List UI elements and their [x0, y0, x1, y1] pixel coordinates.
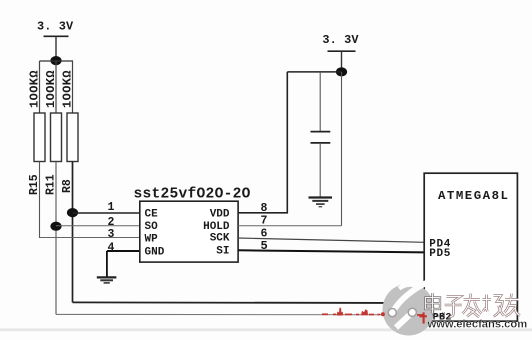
wire 3.3V down to junction	[341, 51, 343, 72]
ground symbol for flash GND	[97, 251, 117, 283]
wire pin8 VDD	[238, 212, 288, 214]
wire junction left to VDD branch	[287, 71, 341, 73]
resistor R11 value 100K	[44, 70, 58, 108]
watermark char fa	[463, 294, 482, 318]
resistor R11 label	[45, 174, 58, 195]
wire R8 top lead	[72, 61, 74, 113]
svg-text:SI: SI	[216, 246, 229, 258]
pin number 8	[261, 202, 268, 215]
pin name SI	[216, 246, 229, 258]
wire R8 bottom lead down	[72, 162, 74, 303]
svg-text:ATMEGA8L: ATMEGA8L	[438, 189, 510, 203]
wire pin2 SO	[56, 225, 140, 227]
IC U1 flash sst25vf020 body	[140, 201, 238, 262]
red annotation tick at ATMEGA	[419, 312, 426, 323]
resistor R15 value 100K	[28, 70, 42, 108]
red annotation dashed underline	[322, 313, 424, 316]
pin name SO	[145, 221, 159, 233]
svg-text:CE: CE	[145, 209, 159, 221]
capacitor C1 plates	[311, 132, 331, 143]
power bar symbol left	[44, 35, 69, 37]
node junction dot top-left	[50, 56, 61, 65]
watermark char zi	[445, 297, 463, 317]
svg-text:GND: GND	[145, 247, 165, 259]
svg-text:3. 3V: 3. 3V	[322, 33, 359, 47]
wire R15 top lead	[39, 61, 41, 113]
watermark char you	[505, 294, 521, 317]
node junction dot right	[336, 67, 347, 76]
wire pin4 GND	[107, 250, 140, 252]
IC U1 title sst25vf020-20	[134, 187, 251, 203]
resistor R8 value 100K	[61, 70, 75, 108]
IC U2 ATMEGA8L body	[424, 173, 517, 321]
wire R11 bottom lead down	[55, 162, 57, 315]
pin name HOLD	[203, 221, 230, 233]
pin number 7	[261, 215, 268, 228]
pin name WP	[145, 234, 159, 246]
resistor R11 body	[51, 113, 62, 162]
pin number 3	[108, 228, 115, 241]
svg-text:1: 1	[108, 201, 115, 214]
resistor R15 label	[28, 174, 41, 195]
svg-text:sst25vfO2O-2O: sst25vfO2O-2O	[134, 187, 251, 203]
red annotation dot	[381, 312, 385, 316]
resistor R8 label	[61, 179, 74, 193]
pin number 4	[108, 241, 115, 254]
wire CE bottom loop	[73, 301, 425, 304]
wire pin5 SI to PD5	[238, 250, 424, 252]
node CE junction dot	[67, 208, 78, 217]
pin number 5	[261, 239, 268, 253]
pin name PD5	[429, 248, 451, 260]
wire VDD vertical drop	[286, 72, 288, 213]
resistor R8 body	[67, 113, 78, 162]
pin number 1	[108, 201, 115, 214]
wire 3.3V to junction	[55, 36, 57, 61]
wire pin7 HOLD	[238, 225, 341, 227]
watermark char dian	[426, 293, 444, 316]
capacitor C1 top lead	[319, 72, 321, 131]
power bar symbol right	[328, 50, 356, 52]
wire HOLD tie-high vertical	[341, 72, 343, 226]
node SO junction dot	[50, 222, 61, 231]
wire rail across resistor tops	[40, 60, 74, 62]
pin name PB2	[433, 313, 452, 324]
wire pin3 WP	[40, 237, 140, 239]
svg-text:3. 3V: 3. 3V	[37, 19, 74, 33]
svg-text:WP: WP	[145, 234, 159, 246]
svg-text:HOLD: HOLD	[203, 221, 230, 233]
red annotation mark 1	[337, 308, 344, 316]
svg-text:3: 3	[108, 228, 115, 241]
watermark logo circle	[383, 283, 435, 336]
faint scan band	[0, 328, 532, 331]
watermark url text	[427, 318, 528, 330]
pin name PD4	[429, 239, 451, 251]
svg-text:VDD: VDD	[210, 209, 230, 221]
resistor R15 body	[34, 113, 45, 162]
svg-text:www.elecfans.com: www.elecfans.com	[427, 318, 528, 330]
wire R15 bottom lead to WP	[39, 162, 41, 239]
pin number 6	[261, 228, 268, 241]
svg-text:4: 4	[108, 241, 115, 254]
watermark char shao	[483, 295, 505, 317]
capacitor C1 bottom lead	[319, 143, 321, 197]
wire pin1 CE	[73, 212, 140, 214]
power net 3.3V label (right)	[322, 33, 359, 47]
svg-text:SCK: SCK	[210, 233, 230, 245]
svg-text:PD5: PD5	[429, 248, 451, 260]
pin number 2	[108, 216, 115, 229]
pin name GND	[145, 247, 165, 259]
wire pin6 SCK to PD4	[238, 238, 424, 242]
pin name SCK	[210, 233, 230, 245]
wire R11 top lead	[55, 61, 57, 113]
wire SO bottom loop	[56, 313, 424, 315]
ground symbol for capacitor	[309, 198, 333, 207]
pin name VDD	[210, 209, 230, 221]
IC U2 title ATMEGA8L	[438, 189, 510, 203]
power net 3.3V label (left)	[37, 19, 74, 33]
pin name CE	[145, 209, 159, 221]
red annotation mark 2	[361, 309, 368, 315]
svg-text:SO: SO	[145, 221, 159, 233]
